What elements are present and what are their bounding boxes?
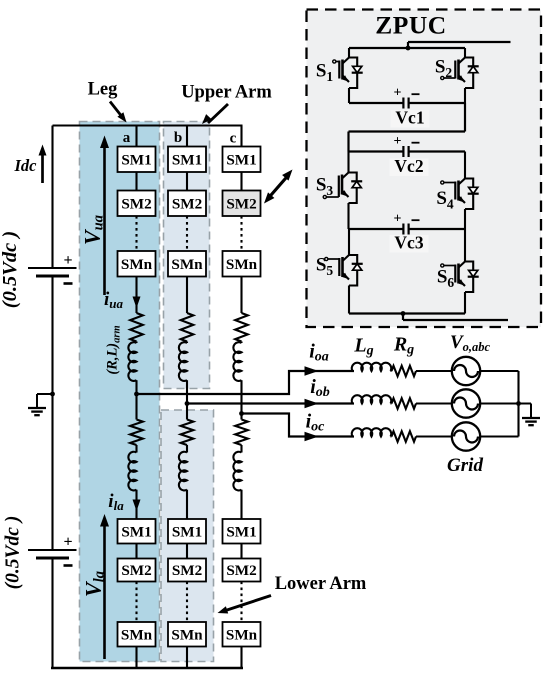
svg-text:+: +: [63, 534, 72, 551]
svg-text:SM1: SM1: [121, 151, 151, 168]
svg-text:Idc: Idc: [14, 156, 38, 175]
svg-text:Lower Arm: Lower Arm: [275, 574, 367, 594]
svg-text:SM1: SM1: [172, 523, 202, 540]
svg-text:b: b: [174, 130, 182, 146]
svg-text:SMn: SMn: [121, 626, 153, 643]
svg-text:SM2: SM2: [226, 195, 256, 212]
svg-text:+: +: [394, 134, 402, 149]
svg-text:SM2: SM2: [121, 195, 151, 212]
svg-text:+: +: [63, 252, 72, 269]
svg-text:SM1: SM1: [121, 523, 151, 540]
svg-text:Upper Arm: Upper Arm: [181, 83, 272, 103]
svg-text:SMn: SMn: [121, 256, 153, 273]
svg-text:SM2: SM2: [172, 195, 202, 212]
svg-text:SM2: SM2: [226, 562, 256, 579]
svg-text:SMn: SMn: [226, 626, 258, 643]
svg-text:+: +: [394, 86, 402, 101]
svg-text:SM2: SM2: [121, 562, 151, 579]
svg-text:Grid: Grid: [447, 455, 483, 476]
svg-text:(0.5Vdc ): (0.5Vdc ): [3, 516, 24, 590]
svg-text:SMn: SMn: [226, 256, 258, 273]
svg-text:Vc1: Vc1: [395, 108, 424, 128]
svg-text:Vc2: Vc2: [394, 156, 423, 176]
svg-text:SM2: SM2: [172, 562, 202, 579]
svg-text:Vc3: Vc3: [394, 233, 423, 253]
svg-text:SMn: SMn: [171, 256, 203, 273]
svg-text:SM1: SM1: [226, 523, 256, 540]
svg-text:(0.5Vdc ): (0.5Vdc ): [0, 231, 21, 308]
svg-text:+: +: [394, 212, 402, 227]
svg-text:a: a: [123, 130, 131, 146]
svg-text:c: c: [230, 131, 237, 147]
svg-text:ZPUC: ZPUC: [375, 11, 446, 40]
svg-text:SM1: SM1: [172, 151, 202, 168]
svg-text:SM1: SM1: [226, 151, 256, 168]
svg-text:Leg: Leg: [88, 80, 119, 100]
svg-text:SMn: SMn: [171, 626, 203, 643]
